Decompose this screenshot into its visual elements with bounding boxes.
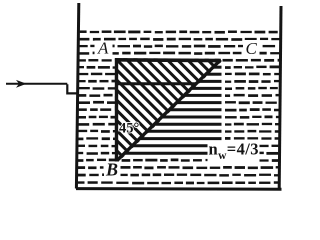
water dashed lines: [78, 32, 280, 183]
label n_w = 4/3: [208, 140, 260, 164]
container bottom: [76, 187, 282, 191]
svg-text:C: C: [246, 39, 258, 58]
prism hatching: [0, 50, 320, 180]
container left wall: [76, 3, 78, 189]
prism left edge AB: [115, 58, 118, 162]
svg-text:A: A: [97, 39, 109, 58]
incident light ray arrow: [6, 80, 67, 88]
label A: [95, 39, 113, 58]
ray inside prism: [115, 82, 196, 85]
prism top edge AC: [115, 58, 221, 62]
svg-text:45°: 45°: [119, 121, 140, 137]
container right wall: [279, 6, 281, 189]
solid water lines right of hypotenuse: [125, 67, 222, 153]
label C: [243, 39, 260, 58]
ray offset step at wall: [67, 84, 76, 93]
svg-text:B: B: [105, 160, 118, 180]
label B: [104, 160, 121, 180]
prism hypotenuse BC: [116, 60, 221, 162]
